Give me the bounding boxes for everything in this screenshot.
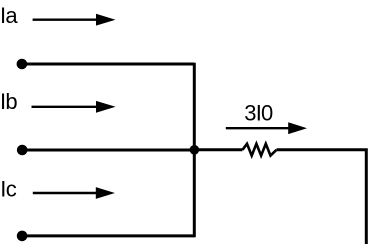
wire phase b xyxy=(22,149,194,152)
svg-text:3I0: 3I0 xyxy=(244,100,273,125)
wire resistor to right corner xyxy=(277,150,367,244)
wire junction to resistor xyxy=(194,148,242,151)
wire phase c xyxy=(22,234,194,237)
bus wire (vertical) xyxy=(193,63,196,238)
svg-text:Ib: Ib xyxy=(0,89,17,114)
node phase b xyxy=(17,145,28,156)
current arrow Ia xyxy=(33,14,116,26)
node phase c xyxy=(17,231,28,242)
current arrow Ib xyxy=(32,101,116,113)
resistor xyxy=(243,144,277,156)
wire phase a xyxy=(22,63,194,66)
node phase a xyxy=(17,59,28,70)
svg-text:Ia: Ia xyxy=(0,3,18,28)
current arrow 3I0 xyxy=(226,122,307,134)
current arrow Ic xyxy=(33,187,115,199)
svg-text:Ic: Ic xyxy=(0,176,16,201)
junction node xyxy=(190,145,200,155)
